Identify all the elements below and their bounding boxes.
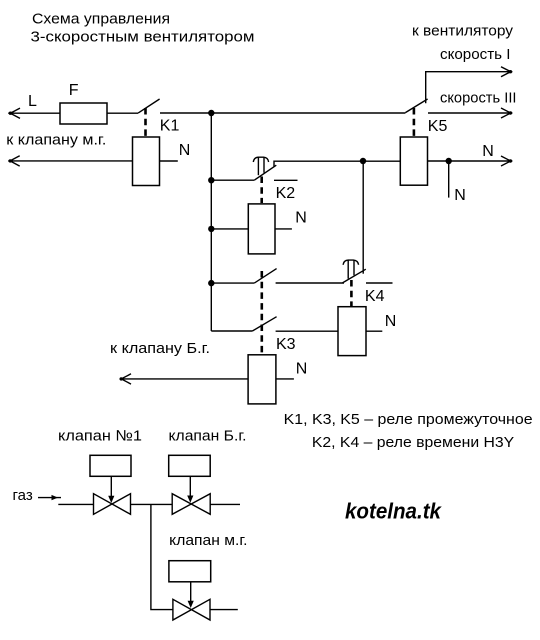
- wire к клапану Б.г. arrow: [120, 374, 249, 384]
- svg-text:к вентилятору: к вентилятору: [412, 23, 514, 40]
- wire K2 coil left: [211, 228, 248, 230]
- contact K3b left wire: [211, 330, 252, 332]
- coil K3: [248, 355, 276, 404]
- svg-text:N: N: [482, 143, 494, 160]
- valve V3 bowtie: [173, 599, 210, 620]
- node junction K2 contact: [208, 177, 214, 183]
- svg-text:F: F: [69, 82, 79, 99]
- svg-text:K3: K3: [276, 336, 296, 353]
- svg-text:клапан №1: клапан №1: [58, 428, 142, 445]
- valve V1 bowtie: [94, 494, 131, 515]
- wire N line right of K5: [428, 156, 513, 166]
- contact K1 blade: [138, 99, 160, 113]
- coil K4: [338, 307, 366, 356]
- valve V2 bowtie: [172, 494, 210, 515]
- wire pipe right of V3: [210, 609, 238, 611]
- wire L line: [8, 112, 138, 114]
- wire K5 N stub down: [448, 161, 450, 198]
- contact K2 left wire: [211, 179, 254, 181]
- actuator stem V3: [190, 582, 192, 602]
- svg-text:K1, K3, K5 – реле промежуточно: K1, K3, K5 – реле промежуточное: [284, 411, 533, 428]
- link K2 dashed: [260, 177, 263, 204]
- coil K1: [133, 137, 160, 186]
- svg-text:газ: газ: [13, 487, 33, 504]
- contact K5 blade: [405, 99, 427, 113]
- wire pipe between V1 V2: [131, 503, 173, 505]
- actuator box V3: [169, 561, 211, 582]
- contact K3a left wire: [211, 282, 254, 284]
- svg-text:скорость I: скорость I: [440, 46, 511, 63]
- svg-text:N: N: [296, 360, 308, 377]
- link K1 dashed: [144, 108, 147, 136]
- wire скорость III line: [428, 108, 512, 118]
- node junction N bus: [360, 158, 366, 164]
- wire K3a to K4 contact: [276, 282, 344, 284]
- svg-text:N: N: [179, 142, 191, 159]
- node junction K2 coil: [208, 226, 214, 232]
- actuator box V2: [169, 455, 211, 476]
- node arrow tip blobs: [9, 112, 12, 115]
- svg-text:N: N: [454, 187, 466, 204]
- svg-text:K4: K4: [365, 288, 385, 305]
- svg-text:K5: K5: [428, 118, 448, 135]
- wire gas pipe inlet: [58, 503, 93, 505]
- svg-text:клапан Б.г.: клапан Б.г.: [169, 427, 247, 444]
- link K3 dashed: [260, 271, 263, 354]
- wire K3 coil N stub: [276, 378, 294, 380]
- wire top bus: [160, 112, 405, 114]
- svg-text:к клапану м.г.: к клапану м.г.: [6, 132, 106, 149]
- actuator stem V1: [110, 476, 112, 497]
- actuator stem V2: [189, 476, 191, 497]
- contact K4 time symbol: [343, 260, 359, 265]
- wire K3b to K4 coil: [276, 330, 338, 332]
- coil K2: [248, 204, 275, 254]
- svg-text:K2, K4 – реле времени H3Y: K2, K4 – реле времени H3Y: [312, 434, 514, 451]
- node junction K5 N stub: [446, 158, 452, 164]
- svg-text:клапан м.г.: клапан м.г.: [169, 532, 247, 549]
- link K5 dashed: [413, 108, 416, 136]
- node L arrow: [10, 108, 20, 118]
- svg-text:N: N: [385, 313, 397, 330]
- contact K2 time symbol: [253, 157, 268, 162]
- contact K3b blade: [252, 317, 276, 331]
- svg-text:Схема управления: Схема управления: [32, 10, 170, 27]
- contact K4 blade: [343, 269, 366, 283]
- contact K2 blade: [254, 165, 276, 180]
- wire pipe right of V2: [210, 503, 240, 505]
- wire pipe branch down: [151, 504, 173, 609]
- node junction K3 contact: [208, 280, 214, 286]
- svg-text:K2: K2: [276, 185, 296, 202]
- wire к клапану м.г. arrow: [8, 156, 132, 166]
- fuse F: [60, 103, 107, 124]
- wire K4 coil N stub: [366, 330, 382, 332]
- wire N line left of K5: [274, 161, 400, 166]
- svg-text:K1: K1: [160, 118, 180, 135]
- label K4 overline: [366, 282, 393, 284]
- node junction top: [208, 110, 214, 116]
- svg-text:N: N: [295, 210, 307, 227]
- label K2 overline: [274, 179, 298, 181]
- coil K5: [400, 137, 427, 185]
- wire скорость I branch: [426, 67, 513, 104]
- svg-text:к клапану Б.г.: к клапану Б.г.: [110, 340, 210, 357]
- svg-text:L: L: [28, 93, 37, 110]
- svg-text:kotelna.tk: kotelna.tk: [345, 499, 443, 524]
- svg-text:3-скоростным вентилятором: 3-скоростным вентилятором: [31, 29, 255, 46]
- contact K3a blade: [254, 269, 276, 284]
- wire right bus to K4: [362, 161, 364, 274]
- wire K2 coil N stub: [275, 228, 292, 230]
- link K4 dashed: [350, 280, 353, 306]
- wire K1 N stub: [160, 160, 178, 162]
- wire left bus vertical: [210, 113, 212, 331]
- wire газ arrow: [38, 497, 61, 499]
- svg-text:скорость III: скорость III: [440, 90, 517, 107]
- actuator box V1: [90, 455, 131, 476]
